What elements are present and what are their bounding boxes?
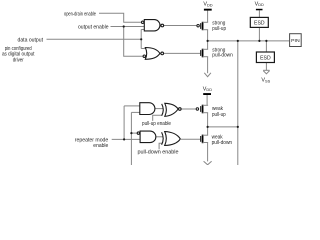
- svg-text:output enable: output enable: [78, 25, 109, 31]
- svg-text:VDD: VDD: [255, 1, 264, 7]
- svg-text:ESD: ESD: [260, 55, 271, 61]
- svg-text:pull-up: pull-up: [212, 112, 226, 118]
- svg-text:open-drain enable: open-drain enable: [64, 11, 96, 17]
- svg-text:driver: driver: [13, 58, 24, 64]
- svg-text:enable: enable: [93, 143, 108, 149]
- svg-text:VSS: VSS: [261, 78, 270, 84]
- svg-text:VDD: VDD: [203, 86, 212, 92]
- svg-text:pull-down: pull-down: [212, 53, 233, 59]
- svg-text:pull-up enable: pull-up enable: [142, 121, 171, 127]
- svg-text:pull-down enable: pull-down enable: [138, 150, 179, 156]
- svg-text:pull-down: pull-down: [212, 140, 233, 146]
- svg-text:pull-up: pull-up: [212, 26, 226, 32]
- svg-text:data output: data output: [18, 38, 44, 44]
- svg-text:ESD: ESD: [254, 21, 265, 27]
- svg-text:VDD: VDD: [203, 2, 212, 8]
- svg-text:PIN: PIN: [291, 38, 300, 43]
